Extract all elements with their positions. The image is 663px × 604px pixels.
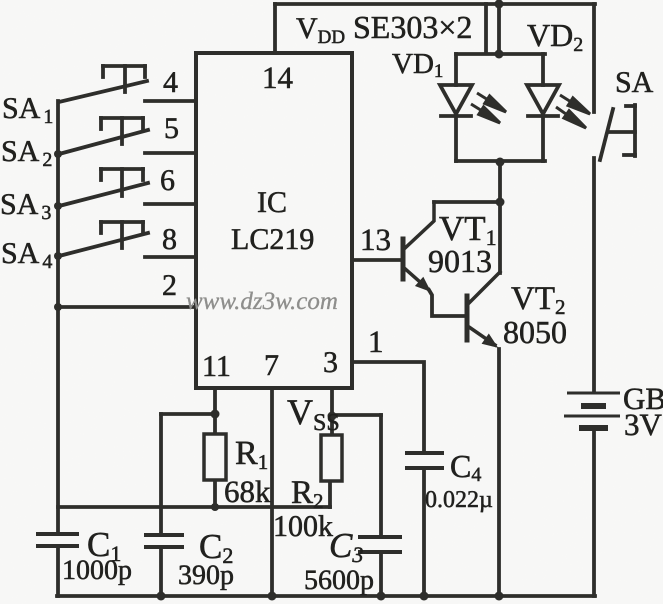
- wire VD bottom rail: [456, 159, 545, 163]
- node R2 top dot: [328, 412, 337, 421]
- node ground C3 dot: [377, 592, 386, 601]
- pushbutton switch SA1: [59, 66, 196, 102]
- capacitor C3 plates: [358, 537, 402, 552]
- transistor Q2 VT2 8050: [467, 272, 500, 347]
- wire VT1 collector horizontal: [434, 200, 500, 204]
- wire C1 bottom lead: [56, 546, 60, 596]
- node VD bottom dot: [496, 158, 505, 167]
- wire right rail middle (SA to battery): [592, 158, 596, 391]
- wire C3 bottom lead: [379, 552, 383, 596]
- pushbutton switch SA3: [59, 169, 196, 206]
- LED VD1: [440, 54, 472, 161]
- wire right rail bottom (battery to ground rail): [592, 428, 596, 596]
- resistor R2 body: [321, 435, 342, 481]
- wire pin3 to C3: [332, 413, 381, 417]
- wire C4 bottom lead: [422, 468, 426, 596]
- wire left rail (switch common): [56, 101, 60, 534]
- wire bottom ground rail: [57, 594, 595, 598]
- wire C2 vertical: [159, 414, 163, 535]
- LED VD2 emission arrows: [556, 95, 590, 128]
- wire C2 top wire: [161, 412, 215, 416]
- node SA2 rail dot: [54, 150, 62, 158]
- transistor Q1 VT1 9013: [403, 202, 434, 291]
- IC U1 LC219 box: [196, 53, 352, 388]
- node VDD top dot: [495, 0, 504, 9]
- wire top VDD rail: [275, 2, 595, 6]
- wire pin 3 lead: [330, 388, 334, 435]
- LED VD1 emission arrows: [471, 93, 506, 123]
- wire VT2 emitter vertical: [497, 349, 501, 596]
- node SA3 rail dot: [54, 202, 62, 210]
- wire mid rail (R1 R2 bottom): [58, 505, 330, 509]
- battery GB plates: [564, 393, 620, 428]
- wire pin 1 horizontal: [352, 362, 424, 453]
- wire C3 vertical: [379, 415, 383, 537]
- node ground C4 dot: [420, 592, 429, 601]
- pushbutton switch SA4: [59, 222, 196, 257]
- node SA4 rail dot: [54, 252, 62, 260]
- node VD top dot: [495, 50, 504, 59]
- pushbutton switch SA2: [59, 118, 196, 154]
- capacitor C1 plates: [36, 534, 79, 546]
- wire VDD box right vertical: [484, 4, 488, 52]
- node R1 top dot: [211, 410, 220, 419]
- node ground VT2 dot: [495, 592, 504, 601]
- node VT1 collector dot: [496, 198, 505, 207]
- wire pin 13 to VT1 base: [352, 258, 402, 262]
- wire VDD box left vertical (pin 14 feed): [273, 4, 277, 53]
- wire pin 2: [58, 305, 196, 309]
- resistor R1 body: [204, 434, 226, 480]
- wire right rail top (to SA): [592, 4, 596, 112]
- wire pin 11 lead: [213, 388, 217, 434]
- capacitor C4 plates: [405, 453, 444, 468]
- capacitor C2 plates: [144, 535, 184, 547]
- node ground C2 dot: [157, 592, 166, 601]
- pushbutton switch SA (right): [600, 105, 635, 160]
- LED VD2: [527, 54, 559, 161]
- wire R2 bottom lead: [328, 481, 332, 507]
- node ground pin7 dot: [268, 592, 277, 601]
- wire C2 bottom lead: [159, 547, 163, 596]
- wire VD bottom to VT1 collector vertical: [498, 161, 502, 273]
- wire VD top rail: [456, 52, 545, 56]
- wire pin 7 vertical: [270, 388, 274, 596]
- node pin2 rail dot: [54, 303, 62, 311]
- node R1 bottom dot: [211, 503, 219, 511]
- wire R1 bottom lead: [213, 480, 217, 507]
- wire VT1 emitter to VT2 base: [429, 290, 467, 316]
- wire VD feed vertical: [497, 4, 501, 54]
